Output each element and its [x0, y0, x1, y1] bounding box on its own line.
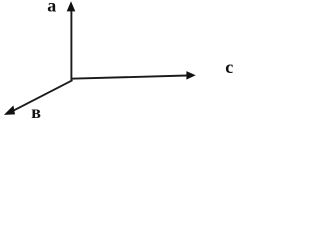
svg-text:a: a	[47, 0, 56, 16]
svg-text:c: c	[225, 57, 233, 77]
wire: horizontal shaft	[71, 76, 187, 79]
svg-text:в: в	[31, 102, 41, 122]
wire: vertical shaft	[70, 11, 72, 80]
wire: diagonal shaft	[14, 80, 73, 110]
axis в (diagonal arrow down-left)	[4, 80, 73, 115]
arrowhead up	[67, 1, 76, 11]
axis a (vertical arrow up)	[67, 1, 76, 80]
axis c (horizontal arrow right)	[71, 71, 196, 80]
arrowhead right	[186, 71, 195, 80]
arrowhead down-left	[4, 105, 15, 115]
